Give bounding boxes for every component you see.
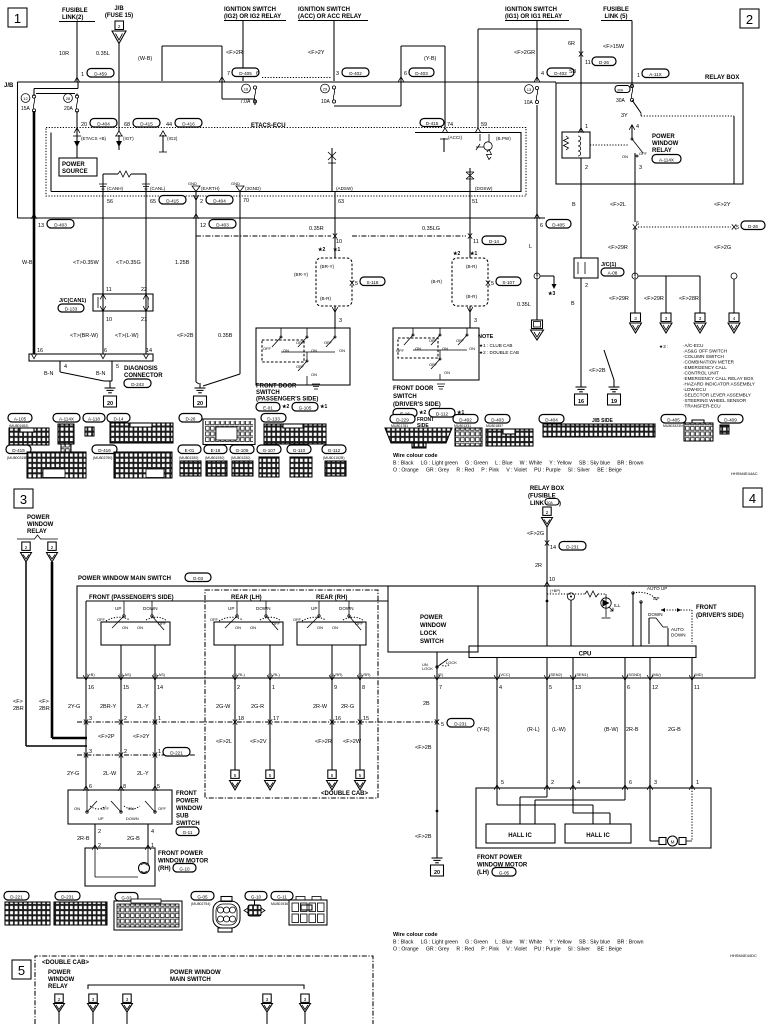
svg-text:<F>2L: <F>2L <box>216 739 232 745</box>
svg-text:G-05: G-05 <box>499 870 510 875</box>
svg-text:7: 7 <box>227 71 230 77</box>
fuse 29 10A under bus <box>321 84 336 105</box>
connector A-105 <box>8 414 49 446</box>
connector G-107 <box>257 445 281 477</box>
svg-text:D-404: D-404 <box>213 198 226 203</box>
connector 7 D-405 <box>227 68 259 77</box>
double cab dashed box section5 <box>35 956 373 1024</box>
svg-text:14: 14 <box>157 685 163 691</box>
svg-text:G-03: G-03 <box>193 576 204 581</box>
svg-text:<F>2Y: <F>2Y <box>714 202 731 208</box>
svg-text:ILL: ILL <box>614 603 621 608</box>
svg-text:(B-R): (B-R) <box>466 264 477 269</box>
wire IG2 feed <box>242 21 244 82</box>
ground earth <box>194 382 207 407</box>
svg-text:B-N: B-N <box>96 371 106 377</box>
ETACS pin IGT <box>115 131 134 150</box>
svg-text:(D.RL): (D.RL) <box>268 672 280 677</box>
connector G-11 row3 <box>271 892 327 926</box>
svg-text:<F>2V: <F>2V <box>250 739 267 745</box>
fusible link 2 feed label <box>59 8 95 22</box>
svg-text:OFF: OFF <box>456 338 465 343</box>
svg-text:FUSIBLE: FUSIBLE <box>603 7 629 13</box>
svg-text:MU801331: MU801331 <box>454 424 471 428</box>
svg-text:ON: ON <box>311 372 317 377</box>
svg-text:11: 11 <box>473 239 479 245</box>
svg-text:OFF: OFF <box>324 340 333 345</box>
J/B fuse 15 feed label <box>105 6 133 19</box>
svg-text:<F>2L: <F>2L <box>610 202 626 208</box>
svg-text:70: 70 <box>243 198 249 204</box>
ETACS ACCI <box>440 135 463 152</box>
svg-text:AUTO: AUTO <box>671 627 684 632</box>
svg-text:15: 15 <box>123 685 129 691</box>
svg-text:5: 5 <box>269 773 272 778</box>
three F29R labels <box>609 296 699 302</box>
svg-text:<F>2B: <F>2B <box>415 834 432 840</box>
svg-text:2: 2 <box>51 545 54 550</box>
svg-text:ON: ON <box>122 625 128 630</box>
svg-text:D-14: D-14 <box>489 239 499 244</box>
svg-text:5: 5 <box>441 722 444 728</box>
lock switch contact <box>422 652 457 678</box>
svg-text:HALL IC: HALL IC <box>586 833 610 839</box>
svg-text:(MU800315B): (MU800315B) <box>7 456 29 460</box>
svg-text:SWITCH: SWITCH <box>176 821 200 827</box>
svg-text:(DRIVER'S SIDE): (DRIVER'S SIDE) <box>393 402 441 408</box>
wire 3GND down <box>203 192 249 387</box>
svg-text:<T>(L-W): <T>(L-W) <box>115 333 139 339</box>
svg-text:MU803323N: MU803323N <box>663 424 683 428</box>
splice junction on L wire <box>534 273 557 297</box>
svg-text:2: 2 <box>585 165 588 171</box>
svg-text:16: 16 <box>244 87 249 92</box>
svg-text:<F>2W: <F>2W <box>343 739 362 745</box>
svg-text:1: 1 <box>637 73 640 79</box>
svg-text:2L-Y: 2L-Y <box>137 771 149 777</box>
svg-text:3: 3 <box>304 997 307 1002</box>
svg-text:2Y-G: 2Y-G <box>67 771 79 777</box>
svg-text:G-110: G-110 <box>293 448 306 453</box>
svg-text:SWITCH: SWITCH <box>393 394 417 400</box>
relay pin 2 wire <box>581 158 588 258</box>
connector 1 D-459 <box>81 69 114 79</box>
rear RH switch <box>293 601 366 645</box>
B wire to ground <box>571 278 588 405</box>
svg-text:5: 5 <box>331 773 334 778</box>
svg-text:D-402: D-402 <box>554 71 567 76</box>
section5 main switch label <box>170 970 221 983</box>
svg-text:29: 29 <box>323 87 328 92</box>
svg-text:MU801781: MU801781 <box>391 424 408 428</box>
svg-text:2R-W: 2R-W <box>313 704 328 710</box>
svg-text:3: 3 <box>339 318 342 324</box>
svg-text:·SELECTOR LEVER ASSEMBLY: ·SELECTOR LEVER ASSEMBLY <box>683 393 751 398</box>
svg-text:POWER WINDOW: POWER WINDOW <box>170 970 221 976</box>
circuit breaker 12 15A <box>21 94 36 113</box>
svg-text:D-221: D-221 <box>170 750 183 755</box>
driver switch cluster <box>632 586 692 646</box>
svg-text:WINDOW: WINDOW <box>176 806 203 812</box>
svg-text:<F>2Y: <F>2Y <box>133 734 150 740</box>
ETACS pin 3GND <box>231 181 261 192</box>
connector D-415 block <box>6 445 86 478</box>
svg-text:SWITCH: SWITCH <box>420 639 444 645</box>
svg-text:B: B <box>571 301 575 307</box>
svg-text:12: 12 <box>23 96 28 101</box>
CPU terminal wires <box>497 658 692 679</box>
wire name labels row1 <box>68 704 354 710</box>
svg-text:74: 74 <box>447 122 453 128</box>
svg-text:D-403: D-403 <box>54 222 67 227</box>
connector G-03 row3 <box>114 893 182 931</box>
wire IG1 feed <box>534 21 540 82</box>
CPU wires down <box>437 678 692 854</box>
svg-text:63: 63 <box>338 199 344 205</box>
svg-text:(MD): (MD) <box>694 672 704 677</box>
svg-text:GND: GND <box>188 181 197 186</box>
svg-text:0.35L: 0.35L <box>96 51 110 57</box>
svg-text:6: 6 <box>629 780 632 786</box>
terminal chevrons main row <box>83 675 363 680</box>
svg-text:L: L <box>529 244 532 250</box>
svg-text:3: 3 <box>92 997 95 1002</box>
connector 20 D-404 <box>81 119 117 129</box>
wire CANL down <box>145 192 147 355</box>
motor RH label <box>158 851 209 872</box>
svg-text:2B: 2B <box>423 701 430 707</box>
svg-text:(D.AS): (D.AS) <box>153 672 166 677</box>
svg-text:(IGT): (IGT) <box>123 136 134 141</box>
svg-text:): ) <box>559 501 561 507</box>
svg-text:2Y-G: 2Y-G <box>68 704 80 710</box>
svg-text:(3GND): (3GND) <box>245 186 261 191</box>
svg-text:6R: 6R <box>568 41 575 47</box>
svg-text:2R-B: 2R-B <box>626 727 639 733</box>
J/B internal jumpers <box>34 82 78 96</box>
svg-text:<F>2G: <F>2G <box>714 245 731 251</box>
CAN resistor <box>103 171 146 182</box>
svg-text:·A/C-ECU: ·A/C-ECU <box>683 343 703 348</box>
ETACS pin ETACS+B <box>73 135 107 147</box>
svg-text:J/B: J/B <box>114 6 124 12</box>
svg-text:12: 12 <box>652 685 658 691</box>
svg-text:2G-R: 2G-R <box>251 704 264 710</box>
svg-text:2R-B: 2R-B <box>77 836 90 842</box>
svg-text:5: 5 <box>501 780 504 786</box>
svg-text:21: 21 <box>141 317 147 323</box>
svg-text:★3 :: ★3 : <box>659 344 668 349</box>
wires below terminals <box>86 678 360 790</box>
wire 20A to ETACS <box>74 111 80 135</box>
svg-text:3: 3 <box>654 780 657 786</box>
ETACS pin IG2 <box>159 131 178 152</box>
connector D-221 row3 <box>4 892 50 926</box>
page number box 2 <box>740 9 759 28</box>
svg-text:<F>: <F> <box>13 699 23 705</box>
page number box 5 <box>12 960 31 979</box>
svg-text:11: 11 <box>106 287 112 293</box>
svg-text:HHSM4E44DC: HHSM4E44DC <box>730 953 757 958</box>
svg-text:·COMBINATION METER: ·COMBINATION METER <box>683 360 735 365</box>
svg-text:DOWN: DOWN <box>339 606 354 611</box>
ground diag <box>104 381 117 407</box>
connector G-05 round <box>191 892 240 933</box>
svg-text:10R: 10R <box>59 51 69 57</box>
svg-text:D-405: D-405 <box>239 71 252 76</box>
svg-text:3: 3 <box>699 316 702 321</box>
connector E-01 <box>178 445 201 476</box>
wire EARTH down <box>193 192 199 383</box>
svg-text:·HAZARD INDICATOR ASSEMBLY: ·HAZARD INDICATOR ASSEMBLY <box>683 382 755 387</box>
relay page connector 2 <box>47 542 58 562</box>
fuse 16 7.0A under bus <box>240 84 257 105</box>
connector 3 D-402 <box>336 68 369 77</box>
svg-text:<F>2R: <F>2R <box>226 50 243 56</box>
svg-text:A-118: A-118 <box>88 416 100 421</box>
power window relay source label sec3 <box>27 515 54 535</box>
power window main switch title <box>78 573 211 582</box>
splice junction on F2L wire <box>632 273 700 313</box>
svg-text:Wire colour code: Wire colour code <box>393 932 438 938</box>
svg-text:5: 5 <box>116 364 119 370</box>
svg-text:10A: 10A <box>524 100 534 106</box>
svg-text:OFF: OFF <box>639 151 648 156</box>
power window relay label <box>652 134 681 163</box>
svg-text:(R-L): (R-L) <box>527 727 540 733</box>
svg-text:SOURCE: SOURCE <box>62 169 88 175</box>
switch output wires to terminals <box>121 645 360 678</box>
connector A-118 <box>83 414 105 437</box>
connector E-16 <box>204 445 227 476</box>
connector D-405 <box>661 415 713 442</box>
svg-text:7.0A: 7.0A <box>240 99 251 105</box>
svg-text:J/C(1): J/C(1) <box>601 262 616 268</box>
wire labels CPU row <box>477 727 681 733</box>
svg-text:IGNITION SWITCH: IGNITION SWITCH <box>505 7 557 13</box>
svg-text:(MU801530): (MU801530) <box>231 456 250 460</box>
svg-text:RELAY: RELAY <box>27 529 47 535</box>
rear LH switch <box>210 601 283 645</box>
svg-text:3: 3 <box>639 165 642 171</box>
page number box 3 <box>14 489 33 508</box>
svg-text:OFF: OFF <box>158 621 167 626</box>
svg-text:WINDOW: WINDOW <box>48 977 75 983</box>
svg-text:J/C(CAN1): J/C(CAN1) <box>59 298 86 304</box>
wire ACC feed <box>333 21 335 82</box>
driver harness loop <box>431 258 521 328</box>
ETACS ADSW transistor <box>328 148 353 192</box>
dash link passenger <box>196 235 331 237</box>
svg-text:2: 2 <box>546 510 549 515</box>
svg-text:(SEN1): (SEN1) <box>575 672 589 677</box>
connector G-10 row3 <box>244 892 267 917</box>
svg-text:B-N: B-N <box>44 371 54 377</box>
main switch outer box <box>77 586 755 678</box>
svg-text:ON: ON <box>622 154 628 159</box>
svg-text:LINK(2): LINK(2) <box>62 15 83 21</box>
svg-text:9: 9 <box>334 685 337 691</box>
svg-text:4: 4 <box>64 364 67 370</box>
svg-text:CONNECTOR: CONNECTOR <box>124 373 163 379</box>
svg-text:FRONT: FRONT <box>176 791 197 797</box>
svg-text:RELAY BOX: RELAY BOX <box>705 75 739 81</box>
svg-text:S-118: S-118 <box>367 280 379 285</box>
relay switch contact <box>590 125 648 159</box>
svg-text:SB: SB <box>569 69 577 75</box>
svg-text:30A: 30A <box>617 89 624 93</box>
dash connector row y722 <box>77 716 437 725</box>
svg-text:(DOSW): (DOSW) <box>475 186 493 191</box>
svg-text:D-402: D-402 <box>459 417 472 422</box>
svg-text:ON: ON <box>332 625 338 630</box>
svg-text:A-114X: A-114X <box>59 416 74 421</box>
svg-text:D-404: D-404 <box>97 121 110 126</box>
svg-text:OFF: OFF <box>396 348 405 353</box>
svg-text:D-231: D-231 <box>566 544 579 549</box>
svg-text:OFF: OFF <box>293 617 302 622</box>
svg-text:(MU801652): (MU801652) <box>9 424 28 428</box>
svg-text:POWER: POWER <box>27 515 50 521</box>
svg-text:OFF: OFF <box>429 338 438 343</box>
wire J/B fuse to ETACS <box>118 44 120 132</box>
connector D-404 J/B side <box>539 415 655 438</box>
svg-text:D-403: D-403 <box>216 222 229 227</box>
svg-text:(BR-Y): (BR-Y) <box>320 264 335 269</box>
svg-text:<F>2P: <F>2P <box>98 734 115 740</box>
svg-text:5: 5 <box>359 773 362 778</box>
svg-text:LINK: LINK <box>530 501 545 507</box>
svg-text:ON: ON <box>250 625 256 630</box>
svg-text:E-01: E-01 <box>185 448 195 453</box>
svg-text:3Y: 3Y <box>621 113 628 119</box>
svg-text:<T>0.35G: <T>0.35G <box>116 260 141 266</box>
svg-text:POWER: POWER <box>652 134 675 140</box>
page number box 4 <box>743 488 762 507</box>
svg-text:18: 18 <box>238 716 244 722</box>
svg-text:G-11: G-11 <box>183 830 193 835</box>
svg-text:OFF: OFF <box>101 806 110 811</box>
svg-text:A-114X: A-114X <box>659 157 674 162</box>
ground 2B wire <box>415 810 444 876</box>
svg-text:2BR-Y: 2BR-Y <box>100 704 117 710</box>
svg-text:RELAY: RELAY <box>48 984 68 990</box>
fusible link 30A in relay box <box>615 81 641 113</box>
svg-text:7: 7 <box>439 685 442 691</box>
wire F2L down <box>634 227 636 276</box>
svg-text:2G-B: 2G-B <box>127 836 140 842</box>
svg-text:ON: ON <box>469 346 475 351</box>
hall IC 1 <box>486 824 555 843</box>
svg-text:G-105: G-105 <box>299 406 312 411</box>
labels F2BR <box>13 699 50 712</box>
svg-text:<F>: <F> <box>39 699 49 705</box>
svg-text:ON: ON <box>339 348 345 353</box>
svg-text:3: 3 <box>665 316 668 321</box>
svg-text:2G-W: 2G-W <box>216 704 231 710</box>
svg-text:FRONT DOOR: FRONT DOOR <box>256 384 297 390</box>
svg-text:<F>2GR: <F>2GR <box>514 50 535 56</box>
svg-text:UP: UP <box>228 606 234 611</box>
svg-text:5: 5 <box>157 784 160 790</box>
connector D-229 <box>385 415 452 449</box>
svg-text:0.35B: 0.35B <box>218 333 233 339</box>
relay box outline <box>556 83 743 184</box>
svg-text:2BR: 2BR <box>39 706 50 712</box>
svg-text:WINDOW: WINDOW <box>27 522 54 528</box>
DOSW wire down <box>422 192 506 259</box>
svg-text:(CANL): (CANL) <box>150 186 166 191</box>
diagnosis connector bus <box>29 348 153 381</box>
svg-text:UP: UP <box>98 816 104 821</box>
svg-text:6: 6 <box>627 685 630 691</box>
wire labels F2P F2Y <box>98 734 362 745</box>
svg-text:6: 6 <box>256 71 259 77</box>
svg-text:UP: UP <box>115 606 121 611</box>
sub switch outputs <box>77 824 154 850</box>
svg-text:30A: 30A <box>616 98 626 104</box>
connector D-26 <box>179 414 255 445</box>
section5 relay label <box>48 970 75 990</box>
svg-text:FRONT POWER: FRONT POWER <box>477 855 523 861</box>
svg-text:FRONT (PASSENGER'S SIDE): FRONT (PASSENGER'S SIDE) <box>89 595 174 601</box>
svg-text:E-01: E-01 <box>263 406 273 411</box>
svg-text:20: 20 <box>197 401 203 407</box>
ETACS ECU dashed border <box>46 128 526 197</box>
section5 bracket <box>88 985 304 989</box>
svg-text:·AS&G OFF SWITCH: ·AS&G OFF SWITCH <box>683 349 727 354</box>
svg-text:ON: ON <box>74 806 80 811</box>
motor LH terminal numbers <box>494 780 699 790</box>
svg-text:D-133: D-133 <box>65 307 78 312</box>
connector 12 D-403 <box>200 220 236 230</box>
connector D-231 row3 <box>54 892 107 926</box>
svg-text:ETACS-ECU: ETACS-ECU <box>251 123 286 129</box>
svg-text:13: 13 <box>527 87 532 92</box>
svg-text:1.25B: 1.25B <box>175 260 190 266</box>
svg-text:(L-W): (L-W) <box>552 727 566 733</box>
connector 5 D-231 <box>435 719 474 729</box>
wire colour code block 2 <box>393 932 644 953</box>
svg-text:51: 51 <box>472 199 478 205</box>
sub switch label <box>176 791 203 836</box>
svg-text:(+BP): (+BP) <box>550 588 561 593</box>
svg-text:★2: ★2 <box>453 251 460 257</box>
relay feed wire bold <box>52 562 87 738</box>
wire FL5 <box>631 21 633 84</box>
svg-text:DOWN: DOWN <box>126 816 139 821</box>
svg-text:(IG2): (IG2) <box>167 136 178 141</box>
relay pin 3 wire <box>635 153 642 222</box>
svg-text:Wire colour code: Wire colour code <box>393 453 438 459</box>
svg-text:RELAY BOX: RELAY BOX <box>530 486 564 492</box>
wire colour code block 1 <box>393 453 644 474</box>
svg-text:ON: ON <box>235 625 241 630</box>
ETACS pin EARTH <box>188 181 220 192</box>
power source diode to box <box>59 147 97 176</box>
inline connector 11 D-26 <box>579 51 616 66</box>
svg-text:(IG2) OR IG2 RELAY: (IG2) OR IG2 RELAY <box>224 14 281 20</box>
svg-text:REAR (LH): REAR (LH) <box>231 595 262 601</box>
front door switch driver label <box>393 384 464 417</box>
svg-text:<F>2G: <F>2G <box>527 531 544 537</box>
svg-text:POWER: POWER <box>62 162 85 168</box>
svg-text:3: 3 <box>89 716 92 722</box>
svg-text:S-107: S-107 <box>502 280 515 285</box>
svg-text:2R-G: 2R-G <box>341 704 354 710</box>
+BP wire into CPU <box>546 586 561 646</box>
CPU terminal labels <box>438 672 704 677</box>
